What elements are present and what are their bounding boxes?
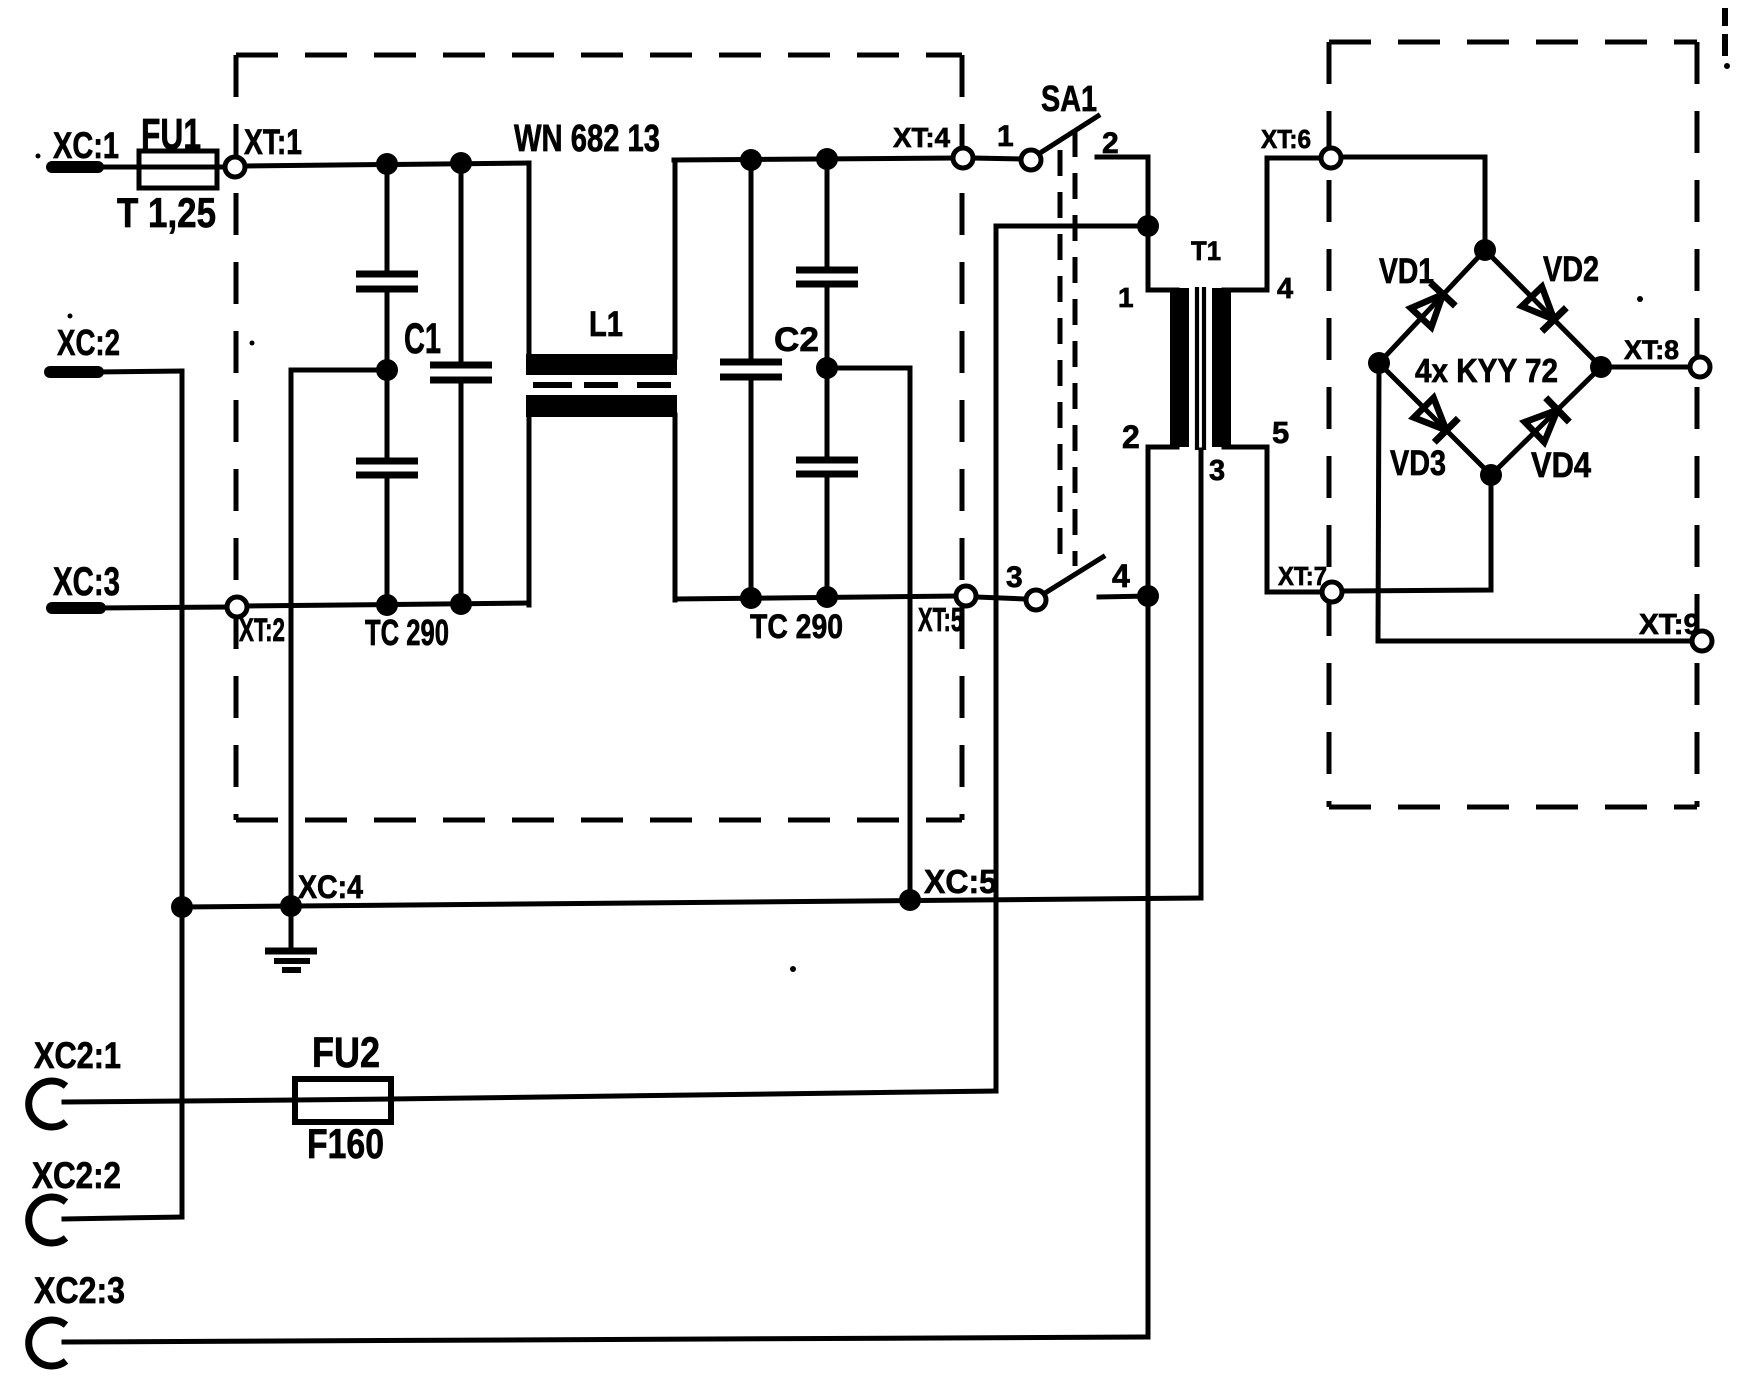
wire ground rail XC:4 XC:5 xyxy=(182,898,1201,907)
junction dot C1 midpoint tap xyxy=(376,359,398,381)
inductor L1 common-mode choke xyxy=(526,160,677,605)
diode VD4 xyxy=(1523,398,1570,445)
svg-text:1: 1 xyxy=(1118,282,1134,313)
terminal XT:8 xyxy=(1690,357,1710,377)
scan speck xyxy=(36,154,41,159)
svg-text:XT:9: XT:9 xyxy=(1639,609,1700,641)
wire SA1-2 down to T1 pin 1 xyxy=(1146,157,1151,290)
svg-text:4x KYY 72: 4x KYY 72 xyxy=(1415,352,1558,389)
svg-text:T1: T1 xyxy=(1191,236,1221,266)
terminal XT:6 xyxy=(1321,148,1341,168)
svg-text:3: 3 xyxy=(1006,561,1023,594)
wire top rail L1 to XT:4 xyxy=(674,158,955,160)
scan speck xyxy=(68,314,73,319)
junction dot bottom of C2 outer xyxy=(816,586,838,608)
svg-text:FU1: FU1 xyxy=(141,110,201,159)
capacitor C1 outer branch lower section xyxy=(356,461,418,606)
svg-text:3: 3 xyxy=(1209,455,1225,487)
terminal XT:4 xyxy=(953,148,973,168)
svg-text:VD2: VD2 xyxy=(1543,250,1599,289)
wire bottom rail XT:2 to L1 xyxy=(247,603,529,606)
diode VD2 xyxy=(1520,285,1567,332)
diode VD1 xyxy=(1409,283,1456,330)
junction dot top of C1 inner xyxy=(450,152,472,174)
terminal XT:1 xyxy=(225,157,245,177)
connector XC2:3 xyxy=(29,1320,1148,1366)
node XC:3 terminal stub xyxy=(52,607,228,608)
junction dot bottom of C1 outer xyxy=(376,594,398,616)
terminal XT:5 xyxy=(956,586,976,606)
svg-text:XT:5: XT:5 xyxy=(918,601,963,638)
svg-text:XT:7: XT:7 xyxy=(1278,561,1327,591)
page edge mark top right xyxy=(1724,8,1730,69)
svg-text:TC 290: TC 290 xyxy=(750,608,843,646)
svg-text:4: 4 xyxy=(1112,558,1130,594)
junction dot SA1-4 joins T1 pin2 wire xyxy=(1137,585,1159,607)
svg-text:VD3: VD3 xyxy=(1390,444,1446,483)
junction dot XC:5 xyxy=(899,889,921,911)
ground symbol xyxy=(265,906,317,970)
wire T1 pin 2 down to XC2:3 rail xyxy=(1146,447,1151,1337)
capacitor C2 outer branch upper section xyxy=(796,159,858,458)
wire FU2 feed to T1 pin 1 junction xyxy=(996,224,1148,229)
wire FU2 to riser xyxy=(391,1091,996,1099)
svg-text:XT:1: XT:1 xyxy=(244,123,302,162)
svg-text:XC:2: XC:2 xyxy=(57,322,120,363)
svg-text:C1: C1 xyxy=(404,315,441,363)
wire XT:6 to bridge top node xyxy=(1341,157,1485,250)
capacitor C2 inner branch xyxy=(720,160,782,598)
junction dot top of C2 outer xyxy=(816,148,838,170)
svg-text:T 1,25: T 1,25 xyxy=(117,189,216,236)
diode bridge edges xyxy=(1379,250,1601,475)
capacitor C1 inner branch xyxy=(430,163,492,605)
svg-text:5: 5 xyxy=(1272,415,1289,450)
junction dot XC:4 xyxy=(280,895,302,917)
filter shield box WN 682 13 (dash-dot outline) xyxy=(236,55,962,820)
switch SA1 mechanical linkage (dashed) xyxy=(1060,131,1075,570)
junction dot C2 midpoint tap xyxy=(816,357,838,379)
svg-text:2: 2 xyxy=(1102,127,1119,160)
svg-text:XC:5: XC:5 xyxy=(924,863,997,900)
terminal XT:9 xyxy=(1692,631,1712,651)
wire FU2 riser up to T1 feed xyxy=(994,226,999,1091)
svg-text:XC2:1: XC2:1 xyxy=(34,1035,121,1076)
transformer T1 xyxy=(1148,287,1267,450)
svg-text:WN 682 13: WN 682 13 xyxy=(514,118,660,160)
connector XC2:1 xyxy=(29,1081,295,1127)
wire top rail XT:1 to L1 xyxy=(245,163,529,166)
svg-text:XC2:2: XC2:2 xyxy=(32,1155,121,1196)
svg-text:XT:2: XT:2 xyxy=(239,612,285,648)
junction dot bridge right node xyxy=(1590,356,1612,378)
svg-text:FU2: FU2 xyxy=(312,1029,380,1077)
wire XT:7 to bridge bottom node xyxy=(1342,475,1491,591)
capacitor C2 outer branch lower section xyxy=(796,460,858,597)
junction dot rail at XC:2 riser xyxy=(171,896,193,918)
node XC:2 terminal stub xyxy=(50,371,182,372)
wire T1 pin 3 screen down to XC:4 rail xyxy=(1199,450,1204,898)
fuse FU2 xyxy=(295,1079,391,1122)
scan speck xyxy=(790,966,796,972)
junction dot T1 pin1 feed xyxy=(1137,215,1159,237)
connector XC2:2 xyxy=(29,1197,182,1243)
svg-text:XT:6: XT:6 xyxy=(1261,124,1311,154)
wire XC:2 riser down to XC2:2 xyxy=(180,371,185,1217)
svg-text:XC:1: XC:1 xyxy=(53,125,119,166)
svg-text:2: 2 xyxy=(1122,419,1140,455)
wire bridge right node to XT:8 xyxy=(1601,365,1690,370)
junction dot bottom of C2 inner xyxy=(740,587,762,609)
junction dot bridge bottom node xyxy=(1480,464,1502,486)
terminal XT:2 xyxy=(227,597,247,617)
svg-text:TC 290: TC 290 xyxy=(365,612,449,653)
wire T1 pin 5 down to XT:7 xyxy=(1267,447,1322,592)
junction dot top of C2 inner xyxy=(740,149,762,171)
svg-text:L1: L1 xyxy=(589,305,623,344)
junction dot bottom of C1 inner xyxy=(450,593,472,615)
switch SA1 pole 3-4 xyxy=(976,557,1148,610)
svg-text:C2: C2 xyxy=(774,321,819,359)
wire bridge left node to XT:9 xyxy=(1378,369,1692,641)
capacitor C1 outer branch upper section xyxy=(356,164,418,459)
junction dot bridge left node xyxy=(1368,352,1390,374)
terminal XT:7 xyxy=(1322,582,1342,602)
svg-text:XT:4: XT:4 xyxy=(893,122,950,153)
wire C2 tap to XC:5 riser xyxy=(827,368,910,900)
svg-text:1: 1 xyxy=(997,120,1014,153)
svg-text:XC:4: XC:4 xyxy=(298,869,363,905)
svg-text:VD4: VD4 xyxy=(1531,446,1591,485)
svg-text:4: 4 xyxy=(1277,273,1293,305)
svg-text:VD1: VD1 xyxy=(1379,252,1434,291)
rectifier shield box (dash-dot outline) xyxy=(1329,42,1697,807)
junction dot top of C1 outer xyxy=(376,153,398,175)
switch SA1 pole 1-2 xyxy=(973,116,1148,170)
svg-text:XT:8: XT:8 xyxy=(1624,335,1679,365)
junction dot bridge top node xyxy=(1474,239,1496,261)
diode VD3 xyxy=(1412,396,1459,443)
svg-text:SA1: SA1 xyxy=(1041,78,1097,119)
fuse FU1 xyxy=(138,151,225,188)
svg-text:XC2:3: XC2:3 xyxy=(34,1270,125,1311)
wire C1 tap to ground riser xyxy=(291,370,387,906)
node XC:1 terminal stub xyxy=(52,161,140,173)
scan speck xyxy=(250,341,255,346)
scan speck xyxy=(1637,296,1643,302)
wire bottom rail L1 to XT:5 xyxy=(675,596,957,599)
svg-text:XC:3: XC:3 xyxy=(53,560,120,604)
svg-text:F160: F160 xyxy=(307,1120,384,1167)
wire T1 pin 4 up to XT:6 xyxy=(1267,158,1321,290)
